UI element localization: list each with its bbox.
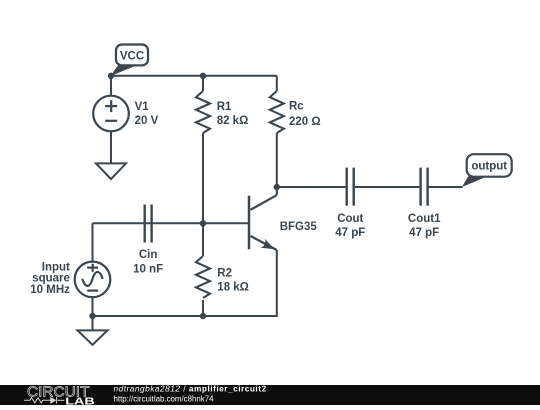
label Cin value bbox=[133, 249, 163, 276]
input source bbox=[75, 262, 111, 298]
svg-text:220 Ω: 220 Ω bbox=[289, 116, 321, 128]
svg-text:Cout: Cout bbox=[337, 213, 363, 225]
label Cout value bbox=[335, 213, 365, 239]
transistor emitter arrow bbox=[260, 239, 274, 250]
node input ground junction bbox=[89, 313, 95, 319]
wire V1 bottom bbox=[110, 131, 112, 163]
wire Rc bottom to collector node bbox=[276, 133, 278, 187]
wire bottom rail bbox=[93, 250, 277, 316]
svg-text:20 V: 20 V bbox=[135, 115, 159, 127]
ground under input source bbox=[78, 330, 108, 345]
svg-text:10 nF: 10 nF bbox=[133, 264, 163, 276]
svg-text:V1: V1 bbox=[135, 101, 150, 113]
node R1 top junction bbox=[200, 73, 206, 79]
svg-text:Input: Input bbox=[42, 261, 70, 273]
wire Cout1 to output flag bbox=[428, 186, 463, 188]
svg-text:R1: R1 bbox=[217, 101, 232, 113]
wire V1 top bbox=[110, 76, 112, 96]
label R1 value bbox=[217, 101, 249, 127]
wire R1 bottom to base node bbox=[202, 133, 204, 223]
svg-text:47 pF: 47 pF bbox=[335, 227, 365, 239]
label Cout1 value bbox=[408, 213, 441, 239]
svg-text:Cout1: Cout1 bbox=[408, 213, 441, 225]
wire R2 top stub bbox=[202, 223, 204, 256]
footer logo diode bbox=[50, 397, 56, 404]
svg-text:square: square bbox=[32, 273, 70, 285]
wire input source top bbox=[92, 223, 94, 261]
wire R1 top stub bbox=[202, 76, 204, 91]
label input source bbox=[30, 261, 70, 295]
label Rc value bbox=[289, 101, 321, 129]
ground under V1 bbox=[96, 163, 126, 179]
footer bar bbox=[0, 385, 540, 405]
net flag VCC bbox=[111, 45, 148, 77]
label R2 value bbox=[217, 268, 249, 294]
wire top rail VCC bbox=[111, 75, 277, 77]
svg-text:Rc: Rc bbox=[289, 101, 304, 113]
wire base line bbox=[93, 222, 249, 224]
wire R2 bottom stub bbox=[202, 300, 204, 316]
node base junction bbox=[200, 220, 206, 226]
svg-text:output: output bbox=[471, 161, 507, 173]
label V1 value bbox=[135, 101, 159, 127]
svg-text:82 kΩ: 82 kΩ bbox=[217, 115, 249, 127]
resistor R2 bbox=[196, 256, 210, 298]
capacitor Cout1 bbox=[421, 168, 428, 206]
net flag output bbox=[462, 154, 512, 187]
transistor Q1 BFG35 bbox=[249, 187, 277, 250]
wire input ground stub bbox=[92, 316, 94, 330]
resistor R1 bbox=[196, 91, 210, 133]
wire output rail bbox=[277, 186, 347, 188]
svg-text:47 pF: 47 pF bbox=[409, 227, 439, 239]
capacitor Cout bbox=[347, 168, 354, 206]
wire between Cout and Cout1 bbox=[354, 186, 421, 188]
node R2 bottom junction bbox=[200, 313, 206, 319]
svg-text:18 kΩ: 18 kΩ bbox=[217, 282, 249, 294]
wire Rc top corner bbox=[276, 76, 278, 91]
svg-text:R2: R2 bbox=[217, 268, 232, 280]
node VCC junction bbox=[108, 73, 114, 79]
svg-text:Cin: Cin bbox=[139, 249, 158, 261]
node collector junction bbox=[274, 184, 280, 190]
svg-text:BFG35: BFG35 bbox=[280, 221, 318, 233]
svg-text:10 MHz: 10 MHz bbox=[30, 284, 70, 296]
svg-text:http://circuitlab.com/c8hnk74: http://circuitlab.com/c8hnk74 bbox=[114, 394, 215, 403]
capacitor Cin bbox=[145, 205, 152, 243]
footer logo circuit glyph bbox=[24, 397, 64, 404]
svg-text:LAB: LAB bbox=[65, 396, 94, 405]
wire input source bottom bbox=[92, 297, 94, 316]
resistor Rc bbox=[270, 91, 284, 133]
svg-text:ndtrangbka2812 / amplifier_cir: ndtrangbka2812 / amplifier_circuit2 bbox=[114, 384, 267, 394]
voltage source V1 bbox=[93, 96, 129, 132]
svg-text:VCC: VCC bbox=[120, 51, 144, 63]
